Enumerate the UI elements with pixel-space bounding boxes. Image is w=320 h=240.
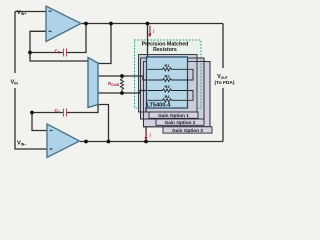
capacitor Cc top [64,49,67,57]
junction RGAIN bottom [120,91,124,95]
wire left rail lower [15,88,47,149]
wire top rail [81,23,223,25]
precision matched resistors dashed border [135,40,202,108]
svg-text:R1: R1 [164,63,170,68]
svg-text:R3: R3 [164,84,170,89]
wire A1 output to mux top [98,24,111,64]
svg-text:(To FDA): (To FDA) [215,80,235,86]
wire Vin+ input [15,11,46,13]
svg-text:R2: R2 [164,74,170,79]
wire bottom rail [80,141,223,143]
junction A2 feedback node [30,111,34,115]
gain option 2 box [141,58,205,119]
op-amp A2 [47,124,80,158]
gain option 2 tag [156,119,204,125]
gain option 3 tag [163,127,212,133]
wire A2 feedback with Cc [32,112,63,114]
junction top rail A1 out [84,22,88,26]
op-amp A1 [46,6,81,42]
junction bottom rail A2 out [84,140,88,144]
precision matched resistors dashed box fill [135,40,202,108]
wire mux bottom to bottom rail [98,105,109,142]
bracket wire R3-R4 right [188,91,194,101]
svg-text:Gain Option 3: Gain Option 3 [172,128,203,133]
resistor RGAIN [120,76,123,93]
wire right rail upper [222,24,224,69]
junction RGAIN top [120,74,124,78]
capacitor Cc bottom [64,109,67,117]
current arrow bottom [144,131,151,141]
svg-text:R4: R4 [164,94,170,99]
wire right rail lower [222,88,224,142]
svg-text:Resistors: Resistors [153,47,177,53]
junction bottom rail mux [107,140,111,144]
resistor R4 [148,94,188,102]
junction bottom rail network [144,140,148,144]
wire gain bottom to R3 [98,91,147,94]
resistor R3 [148,84,188,92]
wire left rail upper [14,12,16,74]
junction A1 feedback node [28,51,32,55]
wire top rail into network [147,24,149,58]
gain option 3 box [144,62,211,127]
resistor R2 [148,74,188,82]
gain option 1 box [139,55,198,113]
current arrow top [148,26,155,38]
wire A1 node to mux [30,53,88,62]
bracket wire R1-R2 right [188,69,194,80]
gain option 1 tag [149,112,198,118]
wire gain top to R2 [98,76,147,80]
junction top rail network [146,22,150,26]
wire A1 feedback with Cc [30,52,63,54]
resistor network U1 LT5400 box [147,57,188,108]
gain option 3 box border restroke [144,62,211,127]
svg-text:Gain Option 1: Gain Option 1 [158,113,189,118]
mux trapezoid [88,58,98,108]
wire network R4 exit sliver [145,107,147,113]
wire bottom rail into network [145,127,147,142]
junction top rail mux [109,22,113,26]
resistor R1 [148,63,188,71]
svg-text:Gain Option 2: Gain Option 2 [165,120,196,125]
gain option 2 box border restroke [141,58,205,119]
svg-text:LT5400-4: LT5400-4 [147,103,172,109]
wire A2 inverting input [32,113,48,131]
wire A1 inverting input [30,31,46,52]
